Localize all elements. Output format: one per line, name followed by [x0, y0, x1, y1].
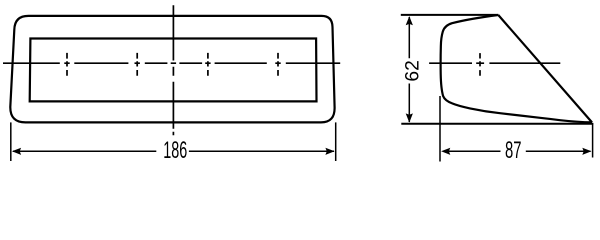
extension line left (186) [10, 122, 12, 161]
arrowhead 186 left [12, 148, 21, 155]
centre mark 3 [207, 53, 209, 76]
front view: outer housing outline [10, 16, 334, 123]
arrowhead 87 left [441, 148, 450, 155]
side view: horizontal centre line [429, 62, 560, 64]
front view: horizontal centre line [3, 62, 340, 64]
arrowhead 62 top [406, 16, 413, 25]
arrowhead 186 right [325, 148, 334, 155]
side view: lamp profile outline [441, 15, 592, 122]
centre mark 1 [66, 53, 68, 76]
front view: inner lens rectangle [30, 39, 317, 102]
side view: centre mark [479, 53, 481, 76]
extension line right (186) [335, 122, 337, 161]
centre mark 2 [136, 53, 138, 76]
dimension line 62 (vertical) [408, 17, 410, 122]
side view: top extension line [401, 14, 499, 16]
dimension line 87 [443, 150, 590, 152]
svg-text:186: 186 [163, 138, 187, 164]
svg-text:62: 62 [402, 60, 424, 81]
centre mark 4 [277, 53, 279, 76]
extension line left (87) [439, 96, 441, 162]
extension line right (87) [592, 123, 594, 158]
dimension line 186 [13, 150, 334, 152]
front view: vertical centre line [172, 5, 174, 135]
svg-text:87: 87 [505, 137, 522, 164]
arrowhead 87 right [582, 148, 591, 155]
side view: bottom base line [401, 123, 593, 125]
arrowhead 62 bottom [406, 113, 413, 122]
